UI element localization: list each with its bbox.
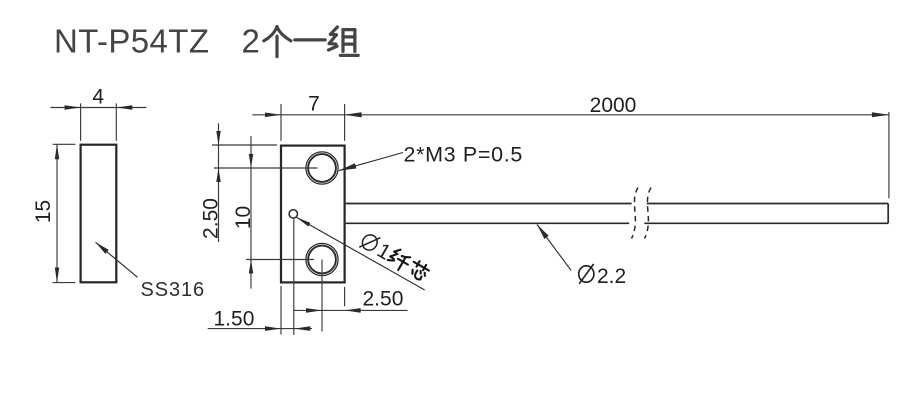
dim 2000 arrow right	[872, 112, 889, 117]
svg-text:SS316: SS316	[141, 279, 206, 301]
hole M3 top outer	[306, 152, 338, 184]
dim 4 extension line right	[115, 103, 117, 140]
ext below block left	[280, 286, 282, 335]
dim 15 dimension line	[56, 144, 58, 282]
dim 2.50 arrow up	[216, 168, 220, 182]
label 2*M3 leader arrow	[339, 163, 357, 170]
svg-text:NT-P54TZ: NT-P54TZ	[54, 23, 209, 60]
ext hole center vertical	[321, 260, 323, 332]
side view body SS316 plate	[81, 145, 117, 283]
cable bottom edge right part	[644, 222, 888, 224]
dim 4 arrow left	[65, 105, 81, 110]
center line top hole	[214, 167, 318, 169]
dim 4 dimension line	[51, 107, 147, 109]
label fiber leader arrow	[296, 217, 310, 226]
fiber core circle	[289, 210, 297, 218]
ext above block right	[344, 104, 346, 141]
dim 7 and 2000 dimension line	[252, 114, 889, 116]
dim 10 arrow up at bottom	[249, 260, 253, 274]
cable top edge right part	[647, 203, 889, 205]
dim 1.50 dimension line	[208, 328, 312, 330]
SS316 leader line	[96, 242, 138, 277]
hole M3 bottom inner	[308, 246, 336, 274]
dim 10 arrow down at top	[249, 154, 253, 168]
hole M3 bottom outer	[306, 243, 338, 275]
dim 2.50 bottom arrow left	[345, 308, 361, 313]
svg-text:1.50: 1.50	[214, 308, 255, 331]
svg-text:15: 15	[32, 200, 55, 223]
break symbol curve right	[645, 188, 652, 239]
dim 1.50 arrow right	[265, 326, 281, 331]
title char ge	[264, 27, 291, 57]
ext line right end	[888, 112, 890, 198]
break symbol curve left	[632, 188, 639, 239]
dim 7 arrow right / 2000 left arrow	[345, 112, 362, 117]
dim 2.50 arrow down	[216, 131, 220, 145]
ext above block left	[280, 104, 282, 141]
dim 2.50 bottom arrow right	[306, 308, 322, 313]
label 2*M3 leader line	[339, 153, 403, 171]
svg-text:2*M3 P=0.5: 2*M3 P=0.5	[404, 142, 523, 166]
SS316 leader arrow	[96, 242, 109, 254]
ext below block right	[344, 287, 346, 306]
dim 2.50 vertical line	[218, 123, 220, 242]
dim 15 arrow down	[55, 268, 59, 283]
svg-text:7: 7	[308, 93, 320, 116]
label fiber text group	[357, 230, 431, 286]
dim 4 extension line left	[80, 103, 82, 140]
dim 1.50 arrow left	[294, 326, 310, 331]
dim 4 arrow right	[116, 105, 132, 110]
svg-text:2: 2	[242, 23, 260, 60]
dim 15 tick bottom	[53, 282, 76, 284]
svg-text:2.2: 2.2	[597, 265, 626, 288]
block top extension line	[212, 144, 277, 146]
label dia2.2 phi symbol	[579, 264, 594, 284]
svg-text:4: 4	[92, 86, 104, 109]
front view body	[281, 146, 345, 283]
label dia2.2 leader arrow	[537, 225, 549, 240]
cable right end cap	[887, 204, 889, 224]
dim 2.50 bottom dimension line	[294, 309, 408, 311]
title char yi	[295, 35, 325, 45]
svg-text:10: 10	[232, 206, 255, 229]
cable bottom edge left part	[346, 222, 630, 224]
title char zu	[328, 27, 358, 55]
cable top edge left part	[346, 203, 632, 205]
svg-text:2.50: 2.50	[363, 288, 404, 311]
dim 10 vertical line	[250, 136, 252, 289]
center line bottom hole	[246, 259, 314, 261]
label fiber leader line	[296, 217, 424, 290]
dim 7 arrow left	[265, 113, 281, 118]
dim 15 arrow up	[55, 144, 59, 159]
svg-text:2.50: 2.50	[200, 198, 223, 239]
dim 15 tick top	[53, 143, 76, 145]
label dia2.2 leader line	[537, 225, 571, 271]
svg-text:2000: 2000	[590, 94, 637, 117]
hole M3 top inner	[308, 154, 336, 182]
ext fiber center vertical	[293, 218, 295, 335]
